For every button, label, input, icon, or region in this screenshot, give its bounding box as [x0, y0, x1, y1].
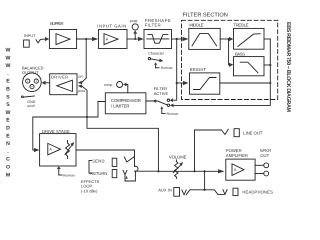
- node junction preshape out: [176, 38, 178, 40]
- svg-text:AUX IN: AUX IN: [158, 188, 172, 193]
- svg-text:peak: peak: [130, 19, 138, 23]
- svg-text:A: A: [106, 38, 109, 42]
- svg-text:FILTER SECTION: FILTER SECTION: [183, 13, 228, 19]
- node junction return line: [157, 170, 159, 172]
- svg-text:INPUT GAIN: INPUT GAIN: [97, 23, 126, 28]
- wire bright input arrow: [177, 82, 183, 84]
- wire preshape out to middle: [172, 38, 183, 40]
- node junction headphone tap: [204, 170, 206, 172]
- svg-text:D: D: [6, 126, 10, 132]
- svg-text:A: A: [49, 148, 52, 152]
- jack J4 LINE OUT: [222, 129, 263, 137]
- svg-text:comp: comp: [104, 83, 113, 87]
- node junction peak tap: [134, 38, 136, 40]
- svg-text:C: C: [6, 157, 10, 163]
- wire bass out to collector: [264, 64, 270, 66]
- svg-text:DRIVER: DRIVER: [51, 75, 68, 80]
- switch S3 pre/post select: [78, 75, 87, 94]
- svg-text:EBS REIDMAR 750 – BLOCK DIAGRA: EBS REIDMAR 750 – BLOCK DIAGRAM: [285, 22, 291, 113]
- jack J3 RETURN: [90, 166, 158, 181]
- svg-text:on/off: on/off: [27, 104, 35, 108]
- svg-text:W: W: [6, 48, 11, 54]
- svg-text:Remote: Remote: [63, 174, 75, 178]
- connector SPKR OUT: [255, 148, 271, 176]
- wire preshape direct line down: [172, 39, 177, 100]
- svg-text:B: B: [6, 87, 10, 93]
- svg-text:A: A: [234, 168, 237, 172]
- svg-text:Remote: Remote: [161, 66, 173, 70]
- op-amp U6 POWER AMPLIFIER: [226, 148, 255, 180]
- LED comp indicator: [104, 82, 128, 93]
- filter F3 TREBLE: [233, 23, 264, 50]
- svg-text:SEND: SEND: [92, 158, 105, 163]
- svg-text:RETURN: RETURN: [90, 171, 107, 176]
- svg-text:E: E: [6, 118, 10, 124]
- wire input to buffer with arrow: [45, 37, 49, 41]
- svg-text:HEADPHONES: HEADPHONES: [242, 190, 273, 195]
- op-amp U2 INPUT GAIN: [97, 23, 127, 48]
- amplifier U3 COMPRESSOR / LIMITER: [105, 93, 146, 114]
- svg-text:BRIGHT: BRIGHT: [190, 67, 207, 72]
- jack J1 INPUT: [24, 34, 45, 47]
- jack J5 AUX IN: [158, 188, 179, 197]
- switch S1 Character: [148, 51, 173, 70]
- wire line out tap: [195, 130, 222, 171]
- svg-text:VOLUME: VOLUME: [169, 155, 187, 160]
- svg-text:OUT: OUT: [260, 153, 269, 158]
- svg-text:pre: pre: [79, 75, 84, 79]
- svg-text:E: E: [6, 79, 10, 85]
- jack J6 HEADPHONES: [233, 188, 273, 195]
- wire middle out to treble: [220, 38, 229, 40]
- svg-text:INPUT: INPUT: [24, 34, 36, 38]
- switch S4 GND lift: [22, 96, 36, 108]
- node junction bright tap: [176, 82, 178, 84]
- node junction line out tap: [193, 170, 195, 172]
- svg-text:W: W: [6, 55, 11, 61]
- svg-text:FILTER: FILTER: [145, 23, 161, 28]
- node aux headphone mixer: [182, 189, 227, 195]
- svg-text:Character: Character: [148, 51, 165, 55]
- node junction collector bright: [269, 82, 271, 84]
- svg-text:BUFFER: BUFFER: [50, 21, 63, 26]
- node junction post line crossing: [86, 116, 88, 118]
- svg-text:AMPLIFIER: AMPLIFIER: [226, 153, 248, 158]
- wire post junction down right to volume feed: [87, 90, 158, 171]
- LED peak indicator: [130, 19, 138, 39]
- wire headphone tap down: [204, 171, 206, 190]
- filter F4 BASS: [234, 51, 265, 75]
- wire junction down to bass input: [228, 39, 231, 65]
- svg-text:/ LIMITER: / LIMITER: [111, 103, 130, 108]
- filter F1 PRESHAPE FILTER: [144, 18, 172, 49]
- svg-text:O: O: [6, 165, 10, 171]
- potentiometer VOLUME: [169, 155, 187, 179]
- node FILTER SECTION dashed box: [182, 20, 278, 99]
- wire bright out to collector: [220, 82, 270, 84]
- wire driver to xlr with arrow: [46, 82, 50, 84]
- svg-text:TREBLE: TREBLE: [233, 23, 249, 28]
- switch remote drive: [57, 166, 75, 177]
- svg-text:(-10 dBv): (-10 dBv): [81, 189, 98, 194]
- svg-text:S: S: [6, 102, 10, 108]
- wire input gain out to preshape: [127, 38, 138, 40]
- node effects loop label: [81, 179, 100, 194]
- switch S2 FILTER ACTIVE: [147, 86, 179, 116]
- jack J2 SEND: [89, 157, 135, 174]
- wire compressor out to drive stage: [33, 102, 105, 151]
- wire buffer out to input gain: [77, 38, 92, 40]
- svg-text:W: W: [6, 110, 11, 116]
- filter F5 BRIGHT: [190, 67, 220, 94]
- svg-text:LINE OUT: LINE OUT: [243, 130, 262, 135]
- svg-text:S: S: [6, 94, 10, 100]
- svg-text:N: N: [6, 141, 10, 147]
- wire treble out to collector: [264, 38, 270, 40]
- wire collector vertical down and left to filter active: [172, 39, 271, 105]
- wire volume line: [158, 170, 218, 172]
- amplifier U4 DRIVER balanced: [50, 74, 77, 95]
- wire drive out to send contact: [76, 150, 135, 166]
- node junction middle out: [228, 38, 230, 40]
- node junction buffer out: [85, 38, 87, 40]
- node right sidebar text EBS REIDMAR 750 - BLOCK DIAGRAM: [285, 22, 291, 113]
- svg-text:BASS: BASS: [235, 51, 245, 56]
- svg-text:M: M: [6, 172, 10, 178]
- svg-text:MIDDLE: MIDDLE: [189, 23, 203, 28]
- node junction collector bass: [269, 64, 271, 66]
- node left sidebar text WWW.EBSSWEDEN.COM: [6, 48, 11, 179]
- op-amp U1 BUFFER: [49, 21, 76, 48]
- svg-text:W: W: [6, 63, 11, 69]
- svg-text:ACTIVE: ACTIVE: [154, 91, 169, 96]
- filter F2 MIDDLE: [189, 23, 220, 50]
- svg-text:Remote: Remote: [167, 112, 179, 116]
- op-amp U5 DRIVE STAGE: [40, 129, 76, 166]
- wire junction down to pre contact: [85, 39, 87, 78]
- svg-text:post: post: [78, 89, 84, 93]
- connector XLR BALANCED OUTPUT: [22, 66, 44, 92]
- svg-text:DRIVE STAGE: DRIVE STAGE: [42, 129, 70, 134]
- svg-text:E: E: [6, 133, 10, 139]
